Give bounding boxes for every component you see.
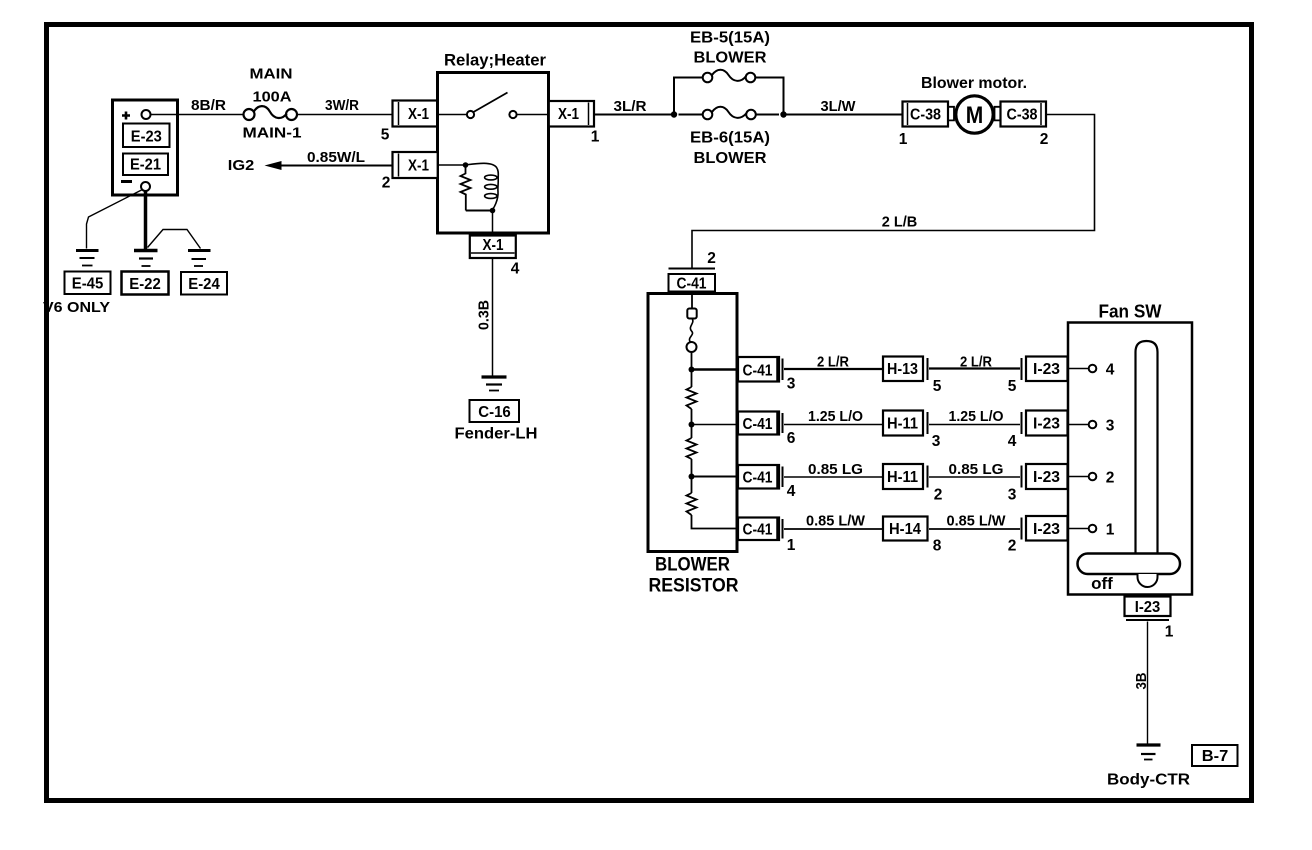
svg-text:I-23: I-23: [1033, 469, 1060, 486]
wire 2 L/B from motor down to blower resistor: [692, 115, 1095, 269]
connector C-38 pin 1: [899, 102, 948, 149]
label Body-CTR: [1107, 772, 1190, 789]
svg-text:6: 6: [787, 430, 796, 447]
wire 0.85 LG right: [929, 462, 1020, 504]
svg-text:E-21: E-21: [130, 157, 161, 174]
svg-text:C-38: C-38: [910, 107, 941, 124]
wire 3B to ground: [1134, 622, 1150, 745]
svg-text:C-38: C-38: [1007, 107, 1038, 124]
connector C-16: [470, 400, 520, 422]
connector E-23: [123, 124, 170, 148]
fuse EB-6: [679, 107, 780, 120]
svg-text:3: 3: [1008, 487, 1017, 504]
svg-text:3L/R: 3L/R: [614, 99, 648, 115]
connector I-23 row2: [1022, 411, 1068, 436]
connector C-38 pin 2: [1001, 102, 1049, 149]
svg-text:C-41: C-41: [743, 522, 773, 539]
svg-text:H-11: H-11: [887, 416, 918, 433]
wire 2 L/R: [784, 355, 883, 371]
svg-text:3W/R: 3W/R: [325, 98, 359, 114]
battery plus sign: [122, 112, 130, 120]
connector X-1 pin 2: [382, 152, 438, 192]
svg-text:Fan SW: Fan SW: [1099, 301, 1162, 322]
svg-text:C-41: C-41: [677, 276, 707, 293]
connector C-41 pin 6: [738, 412, 796, 448]
relay switch contacts and blade: [438, 93, 549, 119]
connector H-11 row2: [883, 411, 941, 451]
wire 2 L/R right: [929, 355, 1020, 396]
svg-text:5: 5: [381, 127, 390, 144]
svg-text:EB-5(15A): EB-5(15A): [690, 30, 770, 47]
svg-text:4: 4: [511, 261, 520, 278]
svg-text:5: 5: [1008, 378, 1017, 395]
connector I-23 row4: [1022, 516, 1068, 541]
svg-text:3L/W: 3L/W: [821, 99, 856, 115]
svg-text:EB-6(15A): EB-6(15A): [690, 130, 770, 147]
svg-text:8B/R: 8B/R: [191, 98, 227, 114]
svg-text:I-23: I-23: [1033, 361, 1060, 378]
svg-text:2: 2: [1008, 538, 1017, 555]
thermal fuse element: [687, 292, 697, 370]
wire 1.25 L/O: [784, 409, 883, 425]
connector B-7: [1192, 745, 1238, 766]
svg-text:BLOWER: BLOWER: [694, 50, 767, 67]
fuse EB-5: [703, 70, 756, 83]
connector X-1 pin 1: [549, 101, 600, 146]
relay coil: [467, 163, 499, 209]
svg-text:1: 1: [899, 131, 908, 148]
connector H-13: [883, 357, 942, 396]
svg-text:Body-CTR: Body-CTR: [1107, 772, 1190, 789]
svg-text:Fender-LH: Fender-LH: [455, 426, 538, 443]
svg-text:3: 3: [1106, 418, 1115, 435]
ground fender: [482, 377, 507, 391]
fuse EB-6 labels: [690, 130, 770, 168]
svg-text:0.85 L/W: 0.85 L/W: [806, 514, 865, 530]
svg-text:4: 4: [1106, 362, 1115, 379]
connector I-23 row3: [1022, 464, 1068, 489]
wire fuse to blower motor, 3L/W: [787, 99, 903, 115]
svg-text:C-41: C-41: [743, 363, 773, 380]
svg-text:0.85 LG: 0.85 LG: [808, 462, 863, 478]
svg-text:MAIN-1: MAIN-1: [243, 126, 302, 142]
fan switch handle: [1078, 554, 1181, 594]
relay coil junction top: [438, 162, 469, 168]
svg-text:X-1: X-1: [408, 106, 429, 123]
label Fender-LH: [455, 426, 538, 443]
svg-text:4: 4: [787, 483, 796, 500]
fan switch contact 4: [1068, 362, 1115, 379]
svg-text:2: 2: [1040, 131, 1049, 148]
fan switch lever bar: [1136, 341, 1158, 557]
wire battery to fuse MAIN, 8B/R: [151, 98, 244, 115]
connector H-11 row3: [883, 464, 942, 504]
fan switch contact 3: [1068, 418, 1115, 435]
connector X-1 pin 4: [470, 236, 520, 278]
label Fan SW: [1099, 301, 1162, 322]
wire to E-24 ground: [148, 230, 201, 249]
svg-text:E-23: E-23: [131, 129, 162, 146]
fan switch box: [1068, 323, 1192, 595]
svg-text:C-41: C-41: [743, 416, 773, 433]
battery minus terminal: [141, 182, 150, 191]
wire 0.85 LG: [784, 462, 883, 478]
svg-text:X-1: X-1: [483, 237, 504, 254]
svg-text:2 L/R: 2 L/R: [960, 355, 992, 371]
svg-text:E-24: E-24: [188, 276, 220, 293]
svg-text:B-7: B-7: [1202, 748, 1229, 765]
relay Relay;Heater title: [444, 51, 546, 70]
connector E-24: [181, 272, 227, 295]
svg-text:5: 5: [933, 378, 942, 395]
svg-text:MAIN: MAIN: [250, 67, 293, 83]
resistor chain with taps: [687, 367, 738, 529]
svg-text:2: 2: [382, 175, 391, 192]
wire 0.85 L/W: [784, 514, 883, 530]
wire 0.85 L/W right: [929, 514, 1020, 555]
wire IG2 0.85W/L with arrow: [228, 150, 392, 174]
svg-text:E-45: E-45: [72, 276, 104, 293]
svg-text:3: 3: [787, 376, 796, 393]
svg-text:1.25 L/O: 1.25 L/O: [949, 409, 1004, 425]
svg-text:0.85 L/W: 0.85 L/W: [947, 514, 1006, 530]
svg-text:2: 2: [934, 487, 943, 504]
svg-text:I-23: I-23: [1033, 521, 1060, 538]
svg-text:C-16: C-16: [478, 404, 511, 421]
connector E-21: [123, 154, 168, 176]
wire X-1 pin1 to fuse junction, 3L/R: [594, 99, 674, 115]
relay box: [438, 73, 549, 234]
svg-text:8: 8: [933, 538, 942, 555]
fuse EB-5 labels: [690, 30, 770, 67]
connector C-41 top: [669, 269, 716, 293]
svg-text:2: 2: [707, 250, 716, 267]
fuse branch risers: [674, 78, 784, 115]
connector E-45: [65, 272, 111, 295]
svg-text:E-22: E-22: [129, 276, 161, 293]
label BLOWER RESISTOR: [649, 555, 739, 597]
svg-text:H-14: H-14: [889, 521, 921, 538]
relay resistor: [461, 165, 471, 211]
wire 1.25 L/O right: [929, 409, 1020, 450]
svg-text:1: 1: [1106, 522, 1115, 539]
svg-text:X-1: X-1: [408, 158, 429, 175]
connector H-14: [883, 517, 942, 555]
svg-text:0.85W/L: 0.85W/L: [307, 150, 365, 166]
svg-text:IG2: IG2: [228, 157, 255, 174]
ground E-22: [134, 251, 158, 267]
svg-text:3B: 3B: [1134, 673, 1150, 690]
svg-text:1.25 L/O: 1.25 L/O: [808, 409, 863, 425]
battery minus sign: [121, 180, 132, 183]
svg-text:1: 1: [1165, 624, 1174, 641]
ground body-ctr: [1137, 745, 1161, 760]
svg-text:0.3B: 0.3B: [477, 300, 493, 330]
motor M: [948, 96, 1001, 133]
label V6 ONLY: [43, 299, 110, 316]
svg-text:C-41: C-41: [743, 470, 773, 487]
fan switch contact 1: [1068, 522, 1115, 539]
ground E-45: [76, 251, 99, 266]
battery plus terminal: [142, 110, 151, 119]
svg-text:H-11: H-11: [887, 469, 918, 486]
svg-text:BLOWER: BLOWER: [694, 150, 767, 167]
svg-text:Relay;Heater: Relay;Heater: [444, 51, 546, 70]
fan switch contact 2: [1068, 470, 1114, 487]
wire fuse to X-1 pin5, 3W/R: [297, 98, 392, 115]
svg-text:BLOWER: BLOWER: [655, 555, 730, 576]
connector I-23 row1: [1022, 357, 1068, 382]
svg-text:X-1: X-1: [558, 106, 579, 123]
connector C-41 pin 1: [738, 518, 796, 555]
relay coil bottom wire and junction: [466, 208, 496, 233]
svg-text:H-13: H-13: [887, 361, 918, 378]
svg-text:0.85 LG: 0.85 LG: [949, 462, 1004, 478]
svg-text:1: 1: [591, 129, 600, 146]
fuse junction dots: [671, 111, 787, 117]
connector X-1 pin 5: [381, 101, 438, 144]
svg-text:I-23: I-23: [1033, 416, 1060, 433]
fuse MAIN 100A MAIN-1: [243, 67, 302, 142]
wire 0.3B to ground: [477, 259, 493, 377]
svg-text:M: M: [966, 102, 984, 129]
connector C-41 pin 3: [738, 357, 796, 393]
connector C-41 pin 4: [738, 465, 796, 500]
battery ground thick wire: [144, 191, 148, 250]
svg-text:1: 1: [787, 537, 796, 554]
svg-text:Blower motor.: Blower motor.: [921, 75, 1027, 92]
connector I-23 bottom: [1125, 597, 1174, 641]
battery box: [113, 100, 178, 195]
svg-text:4: 4: [1008, 433, 1017, 450]
svg-text:V6 ONLY: V6 ONLY: [43, 299, 110, 316]
label Blower motor.: [921, 75, 1027, 92]
svg-text:100A: 100A: [253, 90, 293, 106]
svg-text:3: 3: [932, 433, 941, 450]
connector E-22: [122, 272, 169, 295]
ground E-24: [188, 251, 211, 267]
svg-text:2 L/B: 2 L/B: [882, 215, 918, 231]
blower resistor box: [648, 294, 737, 552]
svg-text:2: 2: [1106, 470, 1115, 487]
svg-text:RESISTOR: RESISTOR: [649, 576, 739, 597]
wire to E-45 ground: [87, 190, 143, 249]
svg-text:2 L/R: 2 L/R: [817, 355, 849, 371]
svg-text:I-23: I-23: [1135, 599, 1161, 616]
svg-text:off: off: [1091, 574, 1113, 593]
